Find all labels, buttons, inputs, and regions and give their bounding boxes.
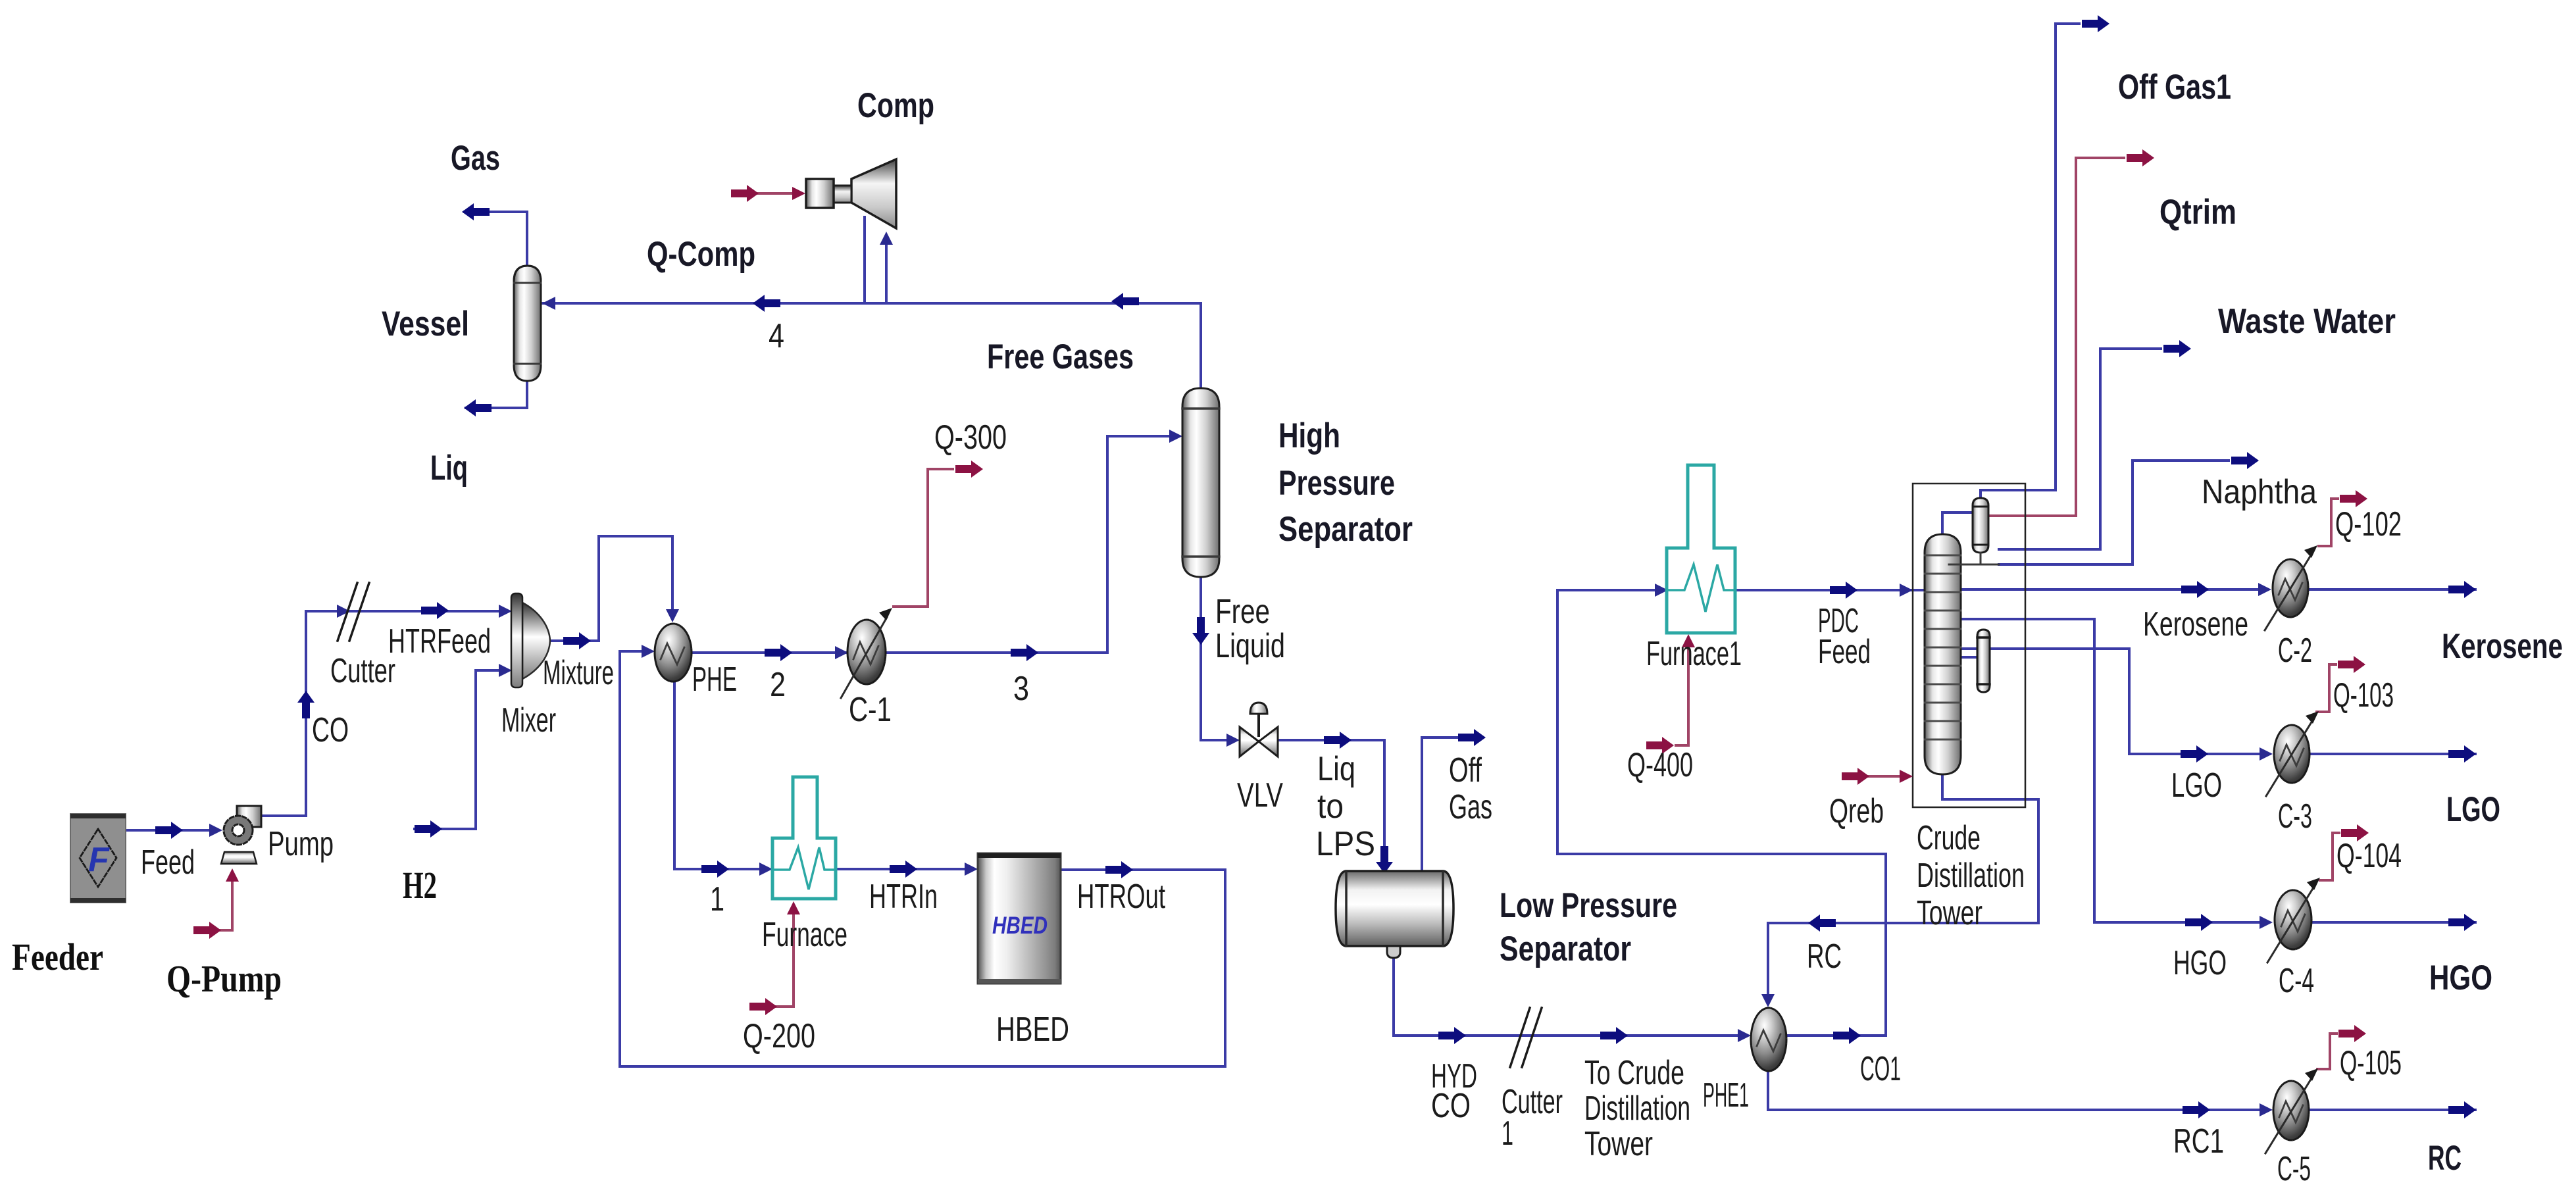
arrow LGO out: [2448, 745, 2476, 762]
wire Kerosene out of C-2: [2308, 588, 2475, 591]
wire 3: C-1 to High Pressure Separator: [886, 436, 1178, 653]
cooler C-1: [841, 608, 892, 698]
svg-text:Qreb: Qreb: [1829, 792, 1884, 830]
svg-text:Free: Free: [1215, 593, 1270, 631]
arrow Liq to LPS: [1324, 732, 1351, 749]
heat-exchanger PHE: [655, 624, 692, 682]
svg-text:Separator: Separator: [1500, 930, 1631, 968]
wire Comp inlet up: [885, 237, 888, 303]
arrow Free Gases (left): [1111, 293, 1139, 310]
arrowhead into PHE1 top: [1761, 994, 1775, 1007]
arrow HGO out: [2448, 914, 2476, 931]
furnace Furnace1: [1667, 465, 1735, 633]
svg-text:RC: RC: [2428, 1139, 2462, 1178]
arrowhead into C-1: [835, 646, 848, 659]
arrow Q-Pump start: [193, 922, 221, 939]
svg-text:C-4: C-4: [2279, 962, 2314, 1000]
wire Free Gases / 4 : HPS top to Comp to Vessel: [542, 303, 1201, 388]
arrow CO1: [1833, 1027, 1861, 1044]
arrow Qtrim end: [2127, 149, 2154, 166]
wire Q-300 energy from C-1: [894, 469, 953, 607]
svg-text:Gas: Gas: [1449, 788, 1492, 826]
arrowhead into PHE top: [666, 609, 679, 622]
arrow Q-105 end: [2338, 1025, 2366, 1042]
arrowhead into HBED: [965, 863, 978, 876]
arrow LGO draw: [2181, 745, 2208, 762]
wire Free Liquid: HPS bottom to VLV: [1201, 577, 1236, 740]
wire Kerosene draw: tower to C-2: [1961, 588, 2267, 591]
svg-text:PHE: PHE: [692, 661, 737, 699]
svg-text:Off: Off: [1449, 751, 1482, 789]
arrow Liq to LPS down into drum: [1376, 846, 1393, 874]
svg-text:Q-103: Q-103: [2333, 676, 2394, 714]
wire Q-Comp energy: [755, 192, 796, 195]
wire stripper stub: [1961, 656, 1977, 659]
svg-text:HBED: HBED: [992, 912, 1048, 939]
svg-text:1: 1: [710, 880, 724, 918]
wire HTRIn: Furnace to HBED: [836, 868, 974, 870]
reactor HBED: [978, 853, 1061, 984]
svg-text:C-2: C-2: [2278, 632, 2312, 670]
wire Liq from Vessel bottom: [466, 379, 527, 408]
arrow H2: [415, 820, 442, 838]
arrow Qreb start: [1842, 768, 1869, 785]
svg-text:RC1: RC1: [2173, 1122, 2224, 1161]
svg-text:Gas: Gas: [451, 139, 500, 178]
arrowhead into Furnace: [759, 863, 772, 876]
arrow HTRFeed: [421, 602, 449, 619]
svg-text:Off Gas1: Off Gas1: [2118, 68, 2231, 107]
feeder Feeder: [70, 814, 126, 903]
svg-text:CO1: CO1: [1860, 1050, 1901, 1088]
svg-text:Crude: Crude: [1917, 819, 1981, 857]
wire RC: tower bottoms to PHE1 top: [1768, 774, 2038, 1003]
arrow Q-Comp start: [731, 185, 759, 202]
svg-text:1: 1: [1502, 1114, 1513, 1153]
cooler C-5: [2265, 1068, 2318, 1153]
vessel Vessel: [514, 266, 541, 381]
furnace Furnace: [772, 777, 836, 899]
arrow Waste Water: [2163, 340, 2191, 357]
arrowhead into Vessel (4): [542, 297, 555, 310]
wire Q-200 energy to Furnace: [776, 909, 794, 1007]
wire Pump outlet up (CO): [261, 611, 306, 816]
svg-text:Feed: Feed: [141, 843, 195, 882]
heat-exchanger PHE1: [1751, 1008, 1786, 1071]
svg-text:Cutter: Cutter: [330, 652, 395, 690]
svg-text:LGO: LGO: [2446, 790, 2500, 829]
cutter symbol Cutter 1: [1510, 1008, 1542, 1067]
wire HTROut recycle: HBED to PHE left: [620, 651, 1225, 1066]
svg-text:Q-300: Q-300: [934, 418, 1007, 457]
wire Feed: Feeder to Pump: [126, 829, 217, 832]
arrow RC1: [2183, 1101, 2210, 1118]
svg-text:HTROut: HTROut: [1077, 878, 1165, 916]
svg-text:Naphtha: Naphtha: [2202, 473, 2317, 511]
pump Pump: [221, 806, 261, 864]
svg-text:HGO: HGO: [2173, 944, 2227, 982]
svg-text:Distillation: Distillation: [1584, 1089, 1690, 1128]
svg-text:Distillation: Distillation: [1917, 857, 2025, 895]
svg-text:3: 3: [1013, 670, 1029, 708]
wire RC out of C-5: [2309, 1109, 2475, 1111]
wire HYD CO / To Crude Distillation Tower: LPS bottom to PHE1: [1394, 958, 1746, 1036]
svg-text:C-5: C-5: [2277, 1150, 2311, 1188]
svg-text:Vessel: Vessel: [382, 305, 469, 343]
arrow 3: [1011, 644, 1038, 661]
svg-text:Pressure: Pressure: [1278, 464, 1395, 503]
arrowhead into tower frame PDC Feed: [1900, 584, 1913, 597]
cutter symbol Cutter: [338, 583, 369, 641]
svg-text:LGO: LGO: [2171, 766, 2222, 805]
arrow Q-102 end: [2340, 490, 2367, 507]
wire CO1: PHE1 to Furnace1: [1557, 590, 1886, 1036]
svg-text:Tower: Tower: [1917, 894, 1983, 932]
wire HGO out of C-4: [2313, 921, 2475, 924]
arrow Gas (left): [462, 203, 490, 220]
wire HGO draw: tower to C-4: [1961, 619, 2269, 922]
side stripper on tower: [1977, 630, 1990, 692]
arrowhead into PHE1 left: [1738, 1029, 1751, 1042]
svg-text:Kerosene: Kerosene: [2442, 627, 2563, 666]
arrow Liq (left): [464, 399, 492, 416]
svg-text:Liquid: Liquid: [1215, 627, 1285, 665]
arrowhead Q-400 into furnace1: [1682, 634, 1695, 647]
wire Gas from Vessel top: [465, 212, 527, 268]
svg-text:Free Gases: Free Gases: [987, 337, 1134, 376]
wire PDC Feed: Furnace1 to tower: [1737, 589, 1925, 591]
arrow Q-200 start: [749, 998, 777, 1015]
svg-text:C-1: C-1: [849, 691, 892, 729]
wire Q-104 energy from C-4: [2320, 833, 2339, 880]
svg-text:CO: CO: [312, 711, 349, 749]
arrow Q-300 end: [955, 461, 983, 478]
arrowhead Q-Comp into comp: [792, 187, 805, 200]
arrow PDC Feed: [1830, 582, 1857, 599]
arrow Naphtha: [2231, 452, 2259, 469]
arrow HTRIn: [890, 861, 917, 878]
mixer Mixer: [511, 593, 550, 687]
arrowhead into Furnace1: [1655, 584, 1668, 597]
arrow Mixture: [563, 632, 591, 649]
wire Q-105 energy from C-5: [2317, 1034, 2336, 1069]
wire LGO draw: tower to C-3: [1961, 649, 2269, 754]
arrowhead mid Cutter line: [337, 605, 350, 618]
arrow CO up: [297, 691, 315, 718]
wire Comp outlet down: [863, 217, 866, 303]
svg-text:Separator: Separator: [1278, 510, 1413, 549]
svg-text:Q-Comp: Q-Comp: [647, 235, 755, 274]
svg-text:H2: H2: [403, 864, 437, 907]
wire LGO out of C-3: [2310, 753, 2475, 755]
arrow Off Gas1: [2082, 15, 2109, 32]
arrowhead into C-3: [2260, 747, 2273, 761]
arrow HGO draw: [2185, 914, 2213, 931]
svg-text:Furnace1: Furnace1: [1646, 635, 1742, 673]
wire Q-102 energy from C-2: [2319, 499, 2338, 546]
arrowhead into Pump: [209, 824, 222, 837]
wire tower overhead to condenser: [1942, 512, 1973, 534]
svg-text:Mixer: Mixer: [501, 701, 556, 739]
wire Q-400 energy to Furnace1: [1676, 642, 1688, 745]
separator Low Pressure Separator (drum): [1336, 871, 1453, 958]
svg-text:Mixture: Mixture: [543, 654, 614, 692]
svg-text:Low Pressure: Low Pressure: [1500, 886, 1677, 925]
wire Cutter / HTRFeed to Mixer: [306, 610, 507, 612]
wire Off Gas from LP separator: [1422, 737, 1480, 871]
arrow Free Liquid down: [1192, 617, 1209, 645]
wire Waste Water from condenser: [1999, 349, 2161, 549]
svg-text:Q-200: Q-200: [743, 1017, 815, 1055]
arrowhead into Mixer bottom: [499, 664, 512, 677]
arrow Kerosene draw: [2181, 581, 2209, 598]
svg-text:Q-104: Q-104: [2336, 837, 2402, 875]
arrow 4 (left): [753, 295, 780, 312]
svg-text:Feed: Feed: [1818, 633, 1871, 671]
arrowhead Qreb into tower: [1900, 770, 1913, 783]
arrow Kerosene out: [2448, 581, 2476, 598]
arrow HTROut: [1105, 861, 1133, 878]
arrow Q-400 start: [1646, 737, 1674, 754]
svg-text:Q-102: Q-102: [2335, 505, 2402, 543]
arrowhead Q-200 into furnace: [787, 901, 800, 914]
svg-text:Pump: Pump: [268, 825, 334, 863]
wire Qreb energy to tower: [1869, 775, 1904, 778]
wire Q-Pump energy: [220, 876, 232, 930]
svg-text:VLV: VLV: [1237, 776, 1283, 814]
svg-text:Kerosene: Kerosene: [2143, 605, 2248, 643]
arrow To Crude Distillation Tower: [1600, 1027, 1628, 1044]
cooler C-4: [2267, 878, 2320, 963]
svg-text:C-3: C-3: [2278, 797, 2312, 836]
arrowhead into PHE left: [642, 645, 655, 658]
svg-text:High: High: [1278, 416, 1340, 455]
arrow Feed: [155, 822, 183, 839]
svg-text:RC: RC: [1807, 938, 1842, 976]
svg-text:CO: CO: [1431, 1087, 1471, 1125]
svg-text:Liq: Liq: [430, 449, 468, 488]
wire Q-103 energy from C-3: [2317, 664, 2336, 712]
svg-text:Q-Pump: Q-Pump: [166, 957, 282, 1000]
svg-text:Tower: Tower: [1584, 1125, 1653, 1163]
arrowhead into HPS: [1169, 430, 1182, 443]
arrow RC (left): [1808, 914, 1836, 932]
wire RC1: PHE1 bottom to C-5: [1768, 1071, 2269, 1110]
arrow Q-103 end: [2338, 656, 2365, 673]
wire 1: PHE bottom to Furnace: [674, 682, 769, 869]
svg-text:HBED: HBED: [996, 1011, 1069, 1049]
wire H2 to Mixer: [415, 670, 507, 829]
arrow Q-104 end: [2341, 824, 2369, 841]
arrowhead into C-4: [2260, 916, 2273, 929]
svg-text:Furnace: Furnace: [762, 916, 847, 954]
svg-text:Waste Water: Waste Water: [2218, 302, 2396, 341]
wire Off Gas1: condenser top up and away: [1981, 24, 2079, 498]
svg-text:HTRIn: HTRIn: [869, 878, 938, 916]
svg-text:HTRFeed: HTRFeed: [388, 622, 491, 661]
cooler C-2: [2265, 545, 2317, 630]
svg-text:PHE1: PHE1: [1703, 1076, 1749, 1114]
column frame Crude Distillation Tower: [1913, 484, 2025, 807]
wire Liq to LPS: VLV to LP separator: [1278, 740, 1384, 867]
svg-text:2: 2: [770, 666, 786, 704]
svg-text:Feeder: Feeder: [12, 936, 103, 978]
svg-text:Liq: Liq: [1317, 750, 1355, 788]
valve VLV: [1240, 703, 1278, 757]
arrowhead into C-5: [2260, 1103, 2273, 1116]
separator High Pressure Separator: [1182, 388, 1219, 577]
svg-text:HGO: HGO: [2429, 959, 2492, 997]
svg-text:Q-105: Q-105: [2340, 1044, 2402, 1082]
arrowhead Q-Pump into pump: [226, 868, 239, 882]
arrow Off Gas: [1458, 729, 1486, 746]
compressor Comp: [806, 159, 896, 228]
svg-text:Q-400: Q-400: [1627, 746, 1693, 784]
svg-text:LPS: LPS: [1316, 825, 1375, 863]
wire 2: PHE to C-1: [692, 651, 846, 654]
arrow RC out: [2448, 1101, 2476, 1118]
wire Naphtha from condenser: [1999, 461, 2229, 564]
arrow 1: [701, 861, 729, 878]
arrow 2: [765, 644, 792, 661]
arrowhead into C-2: [2258, 583, 2271, 596]
arrowhead into VLV: [1226, 734, 1240, 747]
svg-text:F: F: [88, 841, 110, 879]
arrowhead into Mixer top: [499, 605, 512, 618]
svg-text:Comp: Comp: [857, 86, 934, 125]
svg-text:Qtrim: Qtrim: [2159, 193, 2236, 232]
wire Mixture: Mixer to PHE top: [551, 536, 672, 641]
wire Qtrim energy from condenser: [1988, 158, 2124, 516]
cooler C-3: [2266, 711, 2319, 796]
arrowhead into Comp inlet (up): [880, 232, 893, 245]
svg-text:4: 4: [769, 317, 784, 355]
condenser drum on tower: [1949, 498, 1999, 564]
column Crude Distillation Tower: [1925, 534, 1961, 774]
svg-text:To Crude: To Crude: [1584, 1054, 1684, 1092]
svg-text:to: to: [1317, 787, 1344, 826]
arrow HYD CO: [1438, 1027, 1466, 1044]
